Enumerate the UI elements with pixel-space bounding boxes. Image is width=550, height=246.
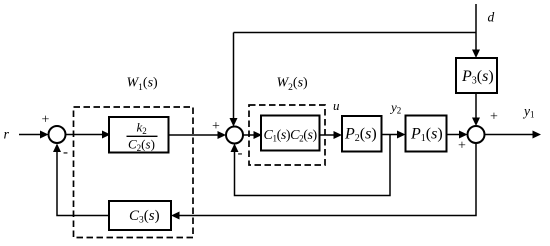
wire feedback y1 to C3 bbox=[178, 143, 476, 216]
dashed box W2 bbox=[249, 105, 325, 165]
block P1(s) bbox=[406, 116, 447, 152]
wire block k2/C2 to S2 bbox=[169, 134, 220, 136]
svg-text:P1(s): P1(s) bbox=[410, 126, 443, 145]
wire P1 to S3 bbox=[447, 134, 462, 136]
wire feedback y2 to S2 bbox=[235, 135, 391, 196]
svg-text:u: u bbox=[333, 98, 340, 113]
summing junction S2 bbox=[226, 127, 243, 144]
svg-text:r: r bbox=[4, 128, 10, 143]
wire S2 to C1C2 block bbox=[243, 134, 255, 136]
svg-text:+: + bbox=[42, 113, 50, 128]
summing junction S3 bbox=[468, 126, 485, 143]
svg-text:W1(s): W1(s) bbox=[127, 76, 159, 94]
svg-text:C1(s)C2(s): C1(s)C2(s) bbox=[264, 128, 318, 144]
wire d branch horizontal bbox=[234, 32, 477, 34]
svg-text:+: + bbox=[490, 110, 498, 125]
svg-text:P3(s): P3(s) bbox=[461, 68, 494, 87]
wire d branch vertical into S2 bbox=[233, 33, 235, 120]
svg-text:-: - bbox=[63, 145, 68, 161]
svg-text:-: - bbox=[238, 146, 243, 162]
svg-text:d: d bbox=[488, 10, 495, 25]
block P2(s) bbox=[342, 116, 382, 152]
wire C1C2 to P2, node u bbox=[320, 134, 336, 136]
wire output y1 bbox=[485, 134, 535, 136]
dashed box W1 bbox=[74, 107, 194, 238]
svg-text:W2(s): W2(s) bbox=[277, 76, 309, 94]
svg-text:C3(s): C3(s) bbox=[129, 208, 160, 226]
wire C3 to S1 bbox=[57, 151, 109, 216]
wire r to S1 bbox=[19, 134, 41, 136]
wire d input vertical bbox=[475, 4, 477, 51]
wire P2 to P1, node y2 bbox=[382, 134, 399, 136]
block C3(s) bbox=[109, 201, 171, 230]
summing junction S1 bbox=[49, 126, 66, 143]
block P3(s) bbox=[456, 58, 497, 93]
wire P3 to S3 bbox=[475, 93, 477, 119]
wire S1 to W1 block bbox=[66, 134, 104, 136]
svg-text:+: + bbox=[212, 119, 220, 134]
svg-text:P2(s): P2(s) bbox=[344, 126, 377, 145]
svg-text:+: + bbox=[458, 139, 466, 154]
block k2/C2(s) bbox=[109, 117, 169, 153]
block C1(s)C2(s) bbox=[261, 116, 320, 151]
svg-text:C2(s): C2(s) bbox=[128, 137, 155, 154]
